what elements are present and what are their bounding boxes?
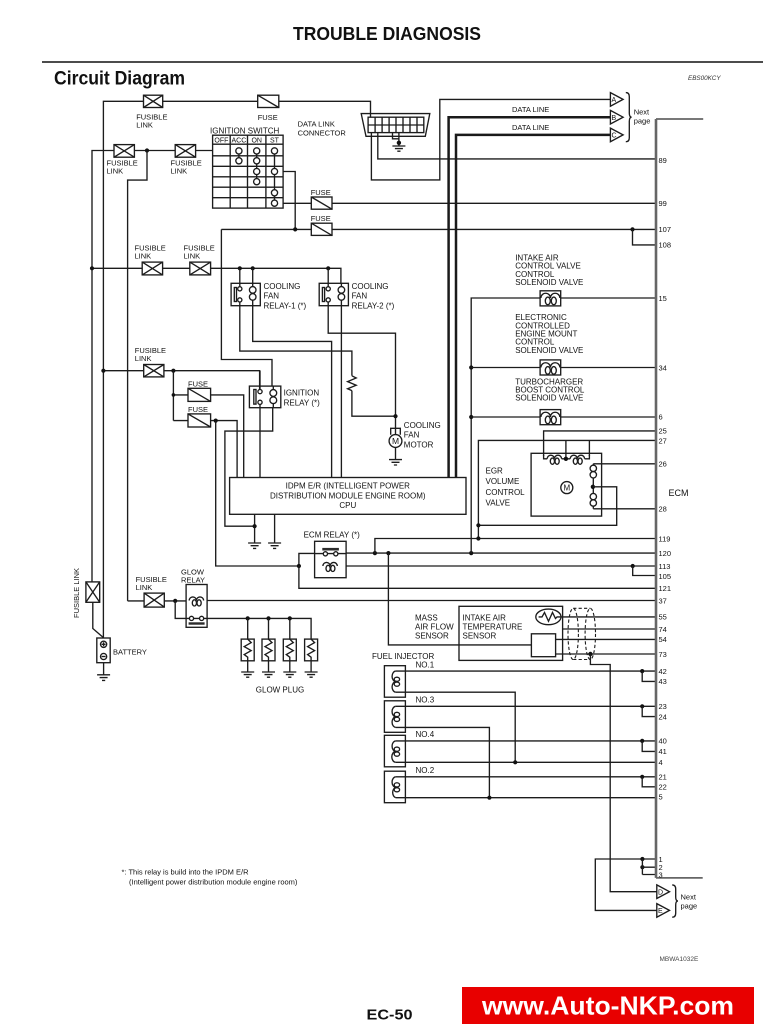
label: injector no.1 <box>416 660 435 669</box>
fusible link FL2 <box>114 145 134 158</box>
junction: EGR centre tap <box>564 457 568 461</box>
thermistor (IAT element) <box>536 609 561 625</box>
svg-text:FUSE: FUSE <box>188 405 208 414</box>
MAF element <box>531 634 555 657</box>
label: intake air control valve control solenoid valve <box>515 253 583 287</box>
wire: fuse F3 row to ECM relay and IPDM <box>173 421 237 478</box>
fusible link FL1 (top feed) <box>144 95 163 107</box>
svg-text:OFF: OFF <box>214 138 228 145</box>
wire: drain to offpage arrow D <box>590 654 656 892</box>
junction: no.1 return joins pin 4 <box>513 760 517 764</box>
svg-text:RELAY-1 (*): RELAY-1 (*) <box>264 301 307 310</box>
header rule <box>42 61 763 63</box>
label: electronic controlled engine mount control solenoid valve <box>515 313 583 355</box>
wire: glow fusible link row <box>128 600 187 602</box>
svg-text:IGNITION: IGNITION <box>284 389 320 398</box>
label: ECM <box>669 488 689 498</box>
svg-text:CONNECTOR: CONNECTOR <box>298 129 347 138</box>
data link connector body <box>361 114 430 137</box>
svg-text:RELAY-2 (*): RELAY-2 (*) <box>352 301 395 310</box>
junction: pin40/41 fork <box>640 739 644 743</box>
wire: fork to ECM pin 43 <box>642 671 656 681</box>
svg-text:COOLING: COOLING <box>404 421 441 430</box>
svg-text:SOLENOID VALVE: SOLENOID VALVE <box>515 394 583 403</box>
svg-text:VOLUME: VOLUME <box>486 477 520 486</box>
ground: glow plug 3 <box>283 672 296 677</box>
ground: glow plug 1 <box>241 672 254 677</box>
label: fuse F2 <box>188 379 208 388</box>
wire: injector no.3 to ECM pin 23 <box>396 705 656 707</box>
svg-text:25: 25 <box>659 426 667 435</box>
wire: ECM pin 26 to rotor coil top <box>593 463 655 465</box>
junction: MAF supply tap <box>386 551 390 555</box>
ground: DLC <box>392 146 405 151</box>
svg-text:FAN: FAN <box>352 292 368 301</box>
wire: start signal row to fuse F5 and ECM pin 107 <box>221 228 655 230</box>
wire: EGR coil right leg <box>588 440 590 456</box>
svg-text:LINK: LINK <box>171 167 188 176</box>
figure code <box>660 956 699 963</box>
wire: cooling fan feed row <box>92 268 341 283</box>
svg-text:MASS: MASS <box>415 613 438 622</box>
wire: ignition switch feed row <box>92 151 213 582</box>
wire: fuse F3 node down to ECM relay coil <box>216 421 299 566</box>
svg-text:A: A <box>612 97 617 104</box>
svg-text:NO.1: NO.1 <box>416 660 435 669</box>
cooling fan motor M1 <box>389 428 402 447</box>
svg-text:INTAKE AIR: INTAKE AIR <box>463 613 507 622</box>
wire: glow relay coil to ECM pin 37 <box>207 600 656 602</box>
svg-text:27: 27 <box>659 437 667 446</box>
offpage arrow A <box>610 93 623 107</box>
svg-text:5: 5 <box>659 792 663 801</box>
wire: feed to fan relay-2 contact <box>327 268 329 287</box>
junction: glow plug taps <box>246 616 292 620</box>
label: next page (bottom) <box>681 893 698 911</box>
junction: pin21/22 fork <box>640 775 644 779</box>
fusible link FL5 <box>190 262 211 275</box>
wire: ignition switch ST row4 to start fuse node <box>283 172 295 230</box>
wire: injector no.4 to ECM pin 40 <box>396 740 656 742</box>
wire: sensor to ECM pin 74 <box>563 628 656 630</box>
intake air temperature sensor box <box>459 606 563 660</box>
svg-text:SENSOR: SENSOR <box>463 632 497 641</box>
wire: branch from FL node down to glow fusible link <box>128 151 147 601</box>
svg-text:EC-50: EC-50 <box>367 1007 413 1024</box>
junction: rotor coil centre <box>591 485 595 489</box>
fuel injector no.3 <box>384 701 405 733</box>
brace: next page (bottom) <box>672 885 678 917</box>
svg-text:DISTRIBUTION MODULE ENGINE ROO: DISTRIBUTION MODULE ENGINE ROOM) <box>270 491 426 500</box>
svg-text:4: 4 <box>659 758 663 767</box>
ground: fan motor <box>389 460 402 465</box>
wire: MAF element to ECM pin 54 <box>556 638 656 640</box>
wire: fork to ECM pin 105 <box>633 566 656 576</box>
junction: pin42/43 fork <box>640 669 644 673</box>
svg-text:ON: ON <box>251 138 262 145</box>
svg-text:Next: Next <box>681 893 697 902</box>
label: cooling fan relay-1 <box>264 282 307 310</box>
junction: fuse F3 output to ECM relay branch <box>214 419 218 423</box>
label: ignition relay <box>284 389 320 408</box>
svg-text:24: 24 <box>659 712 667 721</box>
EGR rotor coil (right) <box>590 464 596 509</box>
junction: solenoid supply tap <box>469 551 473 555</box>
wire: injector no.1 return <box>396 692 515 762</box>
label: fusible link FL1 <box>136 113 167 130</box>
ignition relay IR <box>249 386 280 408</box>
svg-text:54: 54 <box>659 635 667 644</box>
svg-text:IGNITION SWITCH: IGNITION SWITCH <box>210 127 280 136</box>
svg-text:C: C <box>612 133 617 140</box>
label: fusible link FL2 <box>107 159 138 176</box>
svg-text:FUSIBLE LINK: FUSIBLE LINK <box>72 568 81 618</box>
junction: battery line to fan feed <box>90 266 94 270</box>
wire: supply to SV2 and ECM pin 34 <box>471 367 656 369</box>
ECM pin numbers <box>659 156 672 880</box>
label: battery <box>113 648 147 657</box>
wire: feed to fan relay-1 contact <box>239 268 241 287</box>
svg-text:TROUBLE DIAGNOSIS: TROUBLE DIAGNOSIS <box>293 24 481 44</box>
junction: FL6 output node <box>171 369 175 373</box>
cooling fan relay-1 <box>231 283 260 305</box>
label: mass air flow sensor <box>415 613 454 640</box>
wire: start row down to ignition relay coil <box>221 229 272 386</box>
wire: motor to ground <box>395 447 397 459</box>
label: ECM relay <box>304 531 360 540</box>
svg-text:FUSE: FUSE <box>258 113 278 122</box>
solenoid valve SV1 (intake air control) <box>540 291 561 306</box>
junction: fuse F2 tap <box>172 393 176 397</box>
ground: cpu bottom 2 <box>268 543 281 548</box>
label: intake air temperature sensor <box>463 613 523 640</box>
wire: ECM relay contact output (pins 120/119) <box>346 552 656 554</box>
wire: glow contact feed <box>175 601 207 619</box>
svg-text:DATA LINE: DATA LINE <box>512 105 549 114</box>
svg-text:Circuit Diagram: Circuit Diagram <box>54 69 185 90</box>
junction: pin119 tap <box>373 551 377 555</box>
svg-text:ST: ST <box>270 138 280 145</box>
svg-text:MBWA1032E: MBWA1032E <box>660 956 699 963</box>
wire: ignition relay contact to IPDM cpu <box>259 404 261 477</box>
junction: centre-tap bus node <box>476 523 480 527</box>
svg-text:LINK: LINK <box>135 354 152 363</box>
wire: supply to SV3 and ECM pin 6 <box>471 416 656 418</box>
svg-text:www.Auto-NKP.com: www.Auto-NKP.com <box>481 991 734 1021</box>
fusible link FL3 <box>175 145 195 158</box>
junction: DLC ground node <box>397 141 401 145</box>
svg-text:AIR FLOW: AIR FLOW <box>415 622 454 631</box>
label: fusible link FL4 <box>135 244 166 261</box>
label: glow plug <box>256 686 304 695</box>
svg-text:28: 28 <box>659 505 667 514</box>
offpage arrow C <box>610 128 623 142</box>
wire: SV1 to ECM pin 15 <box>561 297 656 299</box>
wire: fork to ECM pin 24 <box>642 706 656 716</box>
label: data line C <box>512 123 549 132</box>
svg-text:BATTERY: BATTERY <box>113 648 147 657</box>
svg-text:120: 120 <box>659 549 672 558</box>
junction: centre-tap to pin119 line <box>476 536 480 540</box>
svg-text:FAN: FAN <box>404 431 420 440</box>
label: glow relay <box>181 568 205 585</box>
wire: ignition relay coil to cpu ground node <box>225 408 273 527</box>
svg-text:VALVE: VALVE <box>486 499 511 508</box>
junction: cpu ground node <box>253 524 257 528</box>
wire: injector no.2 to ECM pin 21 <box>396 776 656 778</box>
svg-text:M: M <box>563 484 570 493</box>
ECM connector bus <box>656 119 703 878</box>
junction: fan feed taps <box>238 266 331 270</box>
label: next page (top) <box>634 108 651 126</box>
label: cooling fan motor <box>404 421 441 449</box>
ground: glow plug 2 <box>262 672 275 677</box>
wire: pin2 link <box>642 859 656 875</box>
svg-text:EGR: EGR <box>486 466 504 475</box>
wire: injector no.1 to ECM pin 42 <box>396 670 656 672</box>
svg-text:RELAY: RELAY <box>181 576 205 585</box>
battery <box>97 638 110 663</box>
wire: MAF element to ECM pin 73 <box>556 653 656 655</box>
svg-text:DATA LINK: DATA LINK <box>298 120 335 129</box>
wire: EGR centre tap leg <box>565 440 567 458</box>
svg-text:LINK: LINK <box>136 121 153 130</box>
junction: pin2 node <box>640 865 644 869</box>
resistor (fan dropping resistor) <box>348 376 357 391</box>
svg-text:105: 105 <box>659 572 672 581</box>
offpage arrow B <box>610 110 623 124</box>
svg-text:23: 23 <box>659 702 667 711</box>
svg-text:40: 40 <box>659 737 667 746</box>
ground: glow plug 4 <box>305 672 318 677</box>
label: fusible link FL3 <box>171 159 202 176</box>
svg-text:15: 15 <box>659 294 667 303</box>
svg-text:26: 26 <box>659 460 667 469</box>
IPDM E/R CPU box <box>230 478 466 515</box>
wire: ECM relay coil to ECM pin 113 <box>346 565 656 567</box>
wire: cpu ground 2 (bottom) <box>274 514 276 543</box>
label: fusible link FL5 <box>184 244 215 261</box>
svg-text:SOLENOID VALVE: SOLENOID VALVE <box>515 278 583 287</box>
wire: data line to arrow B <box>449 117 610 477</box>
svg-text:108: 108 <box>659 241 672 250</box>
fusible link FL8 (glow) <box>144 593 164 607</box>
svg-text:ECM: ECM <box>669 488 689 498</box>
wire: fork to ECM pin 22 <box>642 777 656 787</box>
label: turbocharger boost control solenoid valve <box>515 377 585 402</box>
wire: battery positive feed (top) <box>103 101 370 638</box>
wire: pin 119 line <box>375 539 656 554</box>
wire: fork to ECM pin 108 <box>633 229 656 245</box>
svg-text:LINK: LINK <box>107 167 124 176</box>
fusible link FL7 (battery, vertical) <box>86 582 100 602</box>
section heading <box>54 69 185 90</box>
svg-text:NO.3: NO.3 <box>416 696 435 705</box>
ignition switch table <box>213 135 284 208</box>
wire: FL7 to battery positive <box>93 602 104 638</box>
junction: pin113/105 fork <box>631 564 635 568</box>
svg-text:21: 21 <box>659 773 667 782</box>
svg-text:FAN: FAN <box>264 292 280 301</box>
wire: ECM pins 1-2-3 to offpage arrow E <box>595 859 657 910</box>
wire: FL6 feed down into ignition relay contact <box>259 371 261 390</box>
wire: battery negative to ground <box>103 663 105 675</box>
junction: pin73 shield drain tap <box>588 652 592 656</box>
svg-text:COOLING: COOLING <box>352 282 389 291</box>
glow plug 3 <box>283 618 296 672</box>
wire: data line to arrow C <box>456 135 610 478</box>
svg-text:ECM RELAY (*): ECM RELAY (*) <box>304 531 360 540</box>
svg-text:E: E <box>658 908 663 915</box>
svg-text:107: 107 <box>659 225 672 234</box>
fuse F2 <box>188 388 211 401</box>
label: injector no.3 <box>416 696 435 705</box>
page number <box>367 1007 413 1024</box>
svg-text:IDPM E/R (INTELLIGENT POWER: IDPM E/R (INTELLIGENT POWER <box>286 482 411 491</box>
fuse F1 (top feed) <box>258 95 279 107</box>
svg-text:DATA LINE: DATA LINE <box>512 123 549 132</box>
label: fuse F3 <box>188 405 208 414</box>
fuel injector no.4 <box>384 735 405 767</box>
junction: glow relay coil/contact tap <box>173 599 177 603</box>
label: fuse F5 <box>311 214 331 223</box>
label: fuse F4 <box>311 188 331 197</box>
svg-text:FUSE: FUSE <box>311 214 331 223</box>
wire: ECM pin 25 to EGR coil left <box>544 431 656 456</box>
label: fuse F1 <box>258 113 278 122</box>
svg-text:EBS00KCY: EBS00KCY <box>688 75 721 82</box>
fuel injector no.2 <box>384 771 405 803</box>
svg-text:34: 34 <box>659 363 667 372</box>
wire: fuse F2 row to IPDM <box>173 395 243 478</box>
label: injector no.2 <box>416 766 435 775</box>
fusible link FL4 <box>142 262 162 275</box>
offpage arrow D <box>657 885 670 899</box>
label: data link connector <box>298 120 347 138</box>
svg-text:TEMPERATURE: TEMPERATURE <box>463 622 523 631</box>
svg-text:119: 119 <box>659 534 671 543</box>
svg-text:LINK: LINK <box>136 583 153 592</box>
svg-text:6: 6 <box>659 412 663 421</box>
ground: cpu bottom 1 <box>248 543 261 548</box>
label: cooling fan relay-2 <box>352 282 395 310</box>
wire: DLC K-line loop to arrow A <box>371 99 610 179</box>
footnote <box>122 868 298 887</box>
fuse F5 (pin 107) <box>311 223 332 235</box>
cooling fan relay-2 <box>319 283 348 305</box>
svg-text:3: 3 <box>659 870 663 879</box>
wire: ECM-relay feed row from battery line <box>103 371 259 390</box>
svg-text:99: 99 <box>659 199 667 208</box>
svg-text:MOTOR: MOTOR <box>404 440 434 449</box>
junction: pin23/24 fork <box>640 704 644 708</box>
wire: rotor centre loop to centre-tap bus <box>478 487 616 526</box>
doc code EBS00KCY <box>688 75 721 82</box>
wire: injector no.4 return to ECM pin 4 <box>396 761 656 763</box>
solenoid valve SV2 (engine mount control) <box>540 360 561 375</box>
label: fusible link FL7 (rotated) <box>72 568 81 618</box>
label: injector no.4 <box>416 730 435 739</box>
svg-text:42: 42 <box>659 667 667 676</box>
svg-text:CONTROL: CONTROL <box>486 488 526 497</box>
svg-text:41: 41 <box>659 747 667 756</box>
footer banner <box>462 987 754 1024</box>
svg-text:37: 37 <box>659 596 667 605</box>
junction: FL2/FL3 node <box>145 148 149 152</box>
wire: relay-2 coil to IPDM cpu <box>340 306 342 478</box>
wire: fork to ECM pin 41 <box>642 741 656 752</box>
ECM relay ER <box>315 541 347 577</box>
svg-text:73: 73 <box>659 650 667 659</box>
EGR valve body <box>531 453 602 516</box>
svg-text:FUSE: FUSE <box>311 188 331 197</box>
svg-text:LINK: LINK <box>184 252 201 261</box>
svg-text:RELAY (*): RELAY (*) <box>284 398 320 407</box>
wire: ignition switch ST row7 to fuse F4 <box>283 202 656 204</box>
svg-text:(Intelligent power distributio: (Intelligent power distribution module e… <box>129 878 298 887</box>
solenoid valve SV3 (turbo boost control) <box>540 410 561 425</box>
wire: cpu ground 1 (bottom) <box>254 514 256 543</box>
junction: motor feed node <box>393 414 397 418</box>
wire: glow plug bus <box>207 618 311 639</box>
svg-text:74: 74 <box>659 625 667 634</box>
wire: relay-1 coil to IPDM cpu <box>253 306 332 478</box>
wire: feed to fan relay-1 coil <box>252 268 254 283</box>
glow plug 2 <box>262 618 275 672</box>
svg-text:B: B <box>612 115 617 122</box>
junction: relay feed node <box>297 564 301 568</box>
wire: thermistor to ECM pin 55 <box>561 616 656 618</box>
svg-text:43: 43 <box>659 677 667 686</box>
wire: solenoid supply riser <box>471 298 540 553</box>
wire: relay-2 contact to fan motor <box>328 302 395 435</box>
wire: relay feed node down to pin 121 line <box>299 566 656 588</box>
svg-text:SENSOR: SENSOR <box>415 632 449 641</box>
svg-text:121: 121 <box>659 584 672 593</box>
glow plug 4 <box>305 639 318 672</box>
junction: row4 branch joins start row <box>293 227 297 231</box>
wire: relay-1 contact to dropping resistor <box>240 302 352 376</box>
svg-text:22: 22 <box>659 783 667 792</box>
wire: rotor coil bottom to ECM pin 28 <box>593 508 655 510</box>
ground: battery <box>97 675 110 681</box>
label: fusible link FL6 <box>135 346 166 363</box>
svg-text:page: page <box>634 117 651 126</box>
svg-text:ACC: ACC <box>232 138 247 145</box>
svg-text:LINK: LINK <box>135 252 152 261</box>
EGR stator coil (top) <box>544 455 590 464</box>
label: ignition switch <box>210 127 280 136</box>
glow relay GR <box>186 585 207 628</box>
svg-text:Next: Next <box>634 108 650 117</box>
svg-text:NO.2: NO.2 <box>416 766 435 775</box>
brace: next page (top) <box>626 93 632 142</box>
svg-text:CPU: CPU <box>339 501 356 510</box>
wire: DLC to ECM pin 89 <box>378 133 656 159</box>
junction: pin1 node <box>640 857 644 861</box>
junction: battery line to ECM-relay feed <box>101 369 105 373</box>
wire: resistor to motor node <box>352 391 396 417</box>
svg-text:89: 89 <box>659 156 667 165</box>
page title <box>293 24 481 44</box>
wire: injector no.3 return <box>396 727 490 797</box>
fusible link FL6 <box>144 365 164 377</box>
glow plug 1 <box>241 618 254 672</box>
svg-text:FUSE: FUSE <box>188 379 208 388</box>
label: fusible link FL8 <box>136 575 167 592</box>
wire: ECM relay contact input <box>299 553 346 566</box>
label: fuel injector <box>372 652 434 661</box>
